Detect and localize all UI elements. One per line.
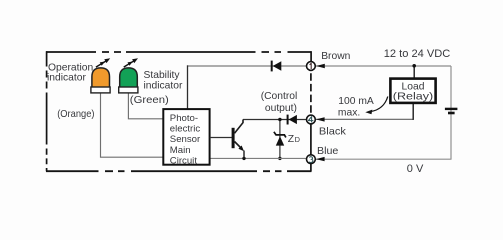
enclosure right edge: corner above terminal 1 <box>310 51 312 61</box>
wire: emitter to bottom rail <box>243 151 245 159</box>
svg-text:indicator: indicator <box>144 80 183 91</box>
svg-text:Brown: Brown <box>321 51 350 62</box>
sensor enclosure phantom border bottom edge <box>46 170 311 172</box>
arrowhead into terminal 4 <box>316 117 325 121</box>
stability indicator LED base band <box>119 87 138 93</box>
wire: internal +V rail y=66 <box>188 65 307 67</box>
wire: green LED cathode lead <box>128 93 163 119</box>
svg-text:(Control: (Control <box>261 91 298 102</box>
battery long bar <box>445 108 458 110</box>
svg-text:output): output) <box>265 103 297 114</box>
svg-text:indicator: indicator <box>47 72 86 83</box>
svg-text:max.: max. <box>338 107 360 118</box>
diode D2 triangle <box>289 115 297 124</box>
svg-text:Blue: Blue <box>317 146 339 157</box>
svg-text:(Orange): (Orange) <box>57 109 94 120</box>
wire: orange LED cathode lead <box>101 93 164 157</box>
diode D2 on output line (cathode bar) <box>287 115 289 125</box>
junction dot zener bottom <box>278 157 281 160</box>
operation indicator emission arrow <box>96 58 110 67</box>
junction dot on supply rail at load tap <box>412 64 416 68</box>
main circuit box <box>163 109 209 165</box>
arrowhead into terminal 3 <box>316 157 325 161</box>
svg-text:0 V: 0 V <box>407 163 424 175</box>
main circuit box label <box>170 113 201 166</box>
wire: internal bottom rail to terminal 3 <box>210 157 307 159</box>
wire: collector rail to terminal 4 <box>243 119 306 121</box>
wire: transistor base lead <box>210 137 232 139</box>
terminal circle 4 <box>307 115 316 124</box>
junction dot emitter on bottom rail <box>242 157 245 160</box>
wire: brown external wire from terminal 1 to supply rail <box>316 65 452 67</box>
enclosure right edge: corner below terminal 3 <box>310 163 312 171</box>
svg-text:Circuit: Circuit <box>170 155 198 166</box>
wire: right side vertical supply to 0V <box>450 66 452 159</box>
svg-text:D: D <box>295 135 300 144</box>
arrowhead into terminal 1 <box>316 64 325 68</box>
svg-text:electric: electric <box>170 124 201 135</box>
transistor Q1 emitter with arrow <box>235 142 241 148</box>
svg-text:Photo-: Photo- <box>170 113 198 124</box>
zener diode ZD triangle <box>276 136 284 145</box>
svg-text:100 mA: 100 mA <box>338 96 374 107</box>
operation indicator LED (orange) dome <box>92 68 110 87</box>
transistor Q1 collector <box>235 120 244 134</box>
diode D1 triangle <box>273 61 282 71</box>
svg-text:(Relay): (Relay) <box>393 92 433 103</box>
wire: vertical from +V rail into main circuit box top <box>187 65 189 109</box>
wire: black external wire from terminal 4 to load <box>316 118 414 120</box>
battery short bar <box>448 112 455 115</box>
stability indicator emission arrow <box>124 58 138 67</box>
wire: blue external 0V wire from terminal 3 <box>316 158 452 160</box>
transistor Q1 base bar <box>232 128 235 148</box>
enclosure right edge: solid segment terminal 4 to terminal 3 <box>310 124 312 155</box>
wire: load top lead <box>413 66 415 79</box>
terminal circle 1 <box>307 62 316 71</box>
wire: load bottom lead <box>412 104 414 120</box>
sensor enclosure phantom border left edge <box>46 51 48 171</box>
enclosure right edge: dashed segment terminal 1 to terminal 4 <box>310 73 312 115</box>
junction dot zener top <box>278 118 281 121</box>
terminal circle 3 <box>307 155 316 164</box>
svg-text:Main: Main <box>170 145 191 156</box>
100 mA max curved pointer arrow <box>370 97 388 112</box>
wire: zener branch vertical <box>279 120 281 159</box>
svg-text:(Green): (Green) <box>130 95 169 106</box>
diode D1 on +V rail (cathode bar) <box>271 61 273 72</box>
svg-text:Black: Black <box>319 127 347 138</box>
stability indicator LED (green) dome <box>120 68 138 87</box>
operation indicator LED base band <box>91 87 110 93</box>
svg-text:12 to 24 VDC: 12 to 24 VDC <box>384 48 451 60</box>
svg-text:Sensor: Sensor <box>170 134 201 145</box>
load box <box>390 79 435 103</box>
zener diode ZD cathode bar with hooks <box>274 132 286 138</box>
sensor enclosure phantom border top edge <box>46 51 311 53</box>
